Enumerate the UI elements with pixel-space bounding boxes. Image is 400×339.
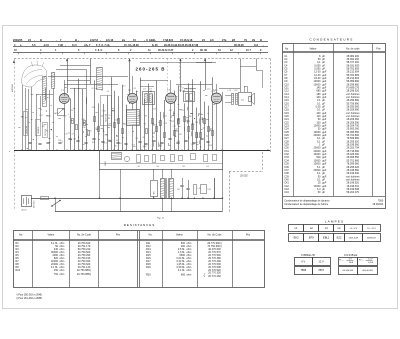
svg-text:2.8/7.8: 2.8/7.8 [90,38,98,42]
condensateurs header double rule [283,51,386,53]
svg-text:R8: R8 [136,138,138,140]
svg-text:6.8: 6.8 [188,121,190,123]
svg-text:28.906.540: 28.906.540 [26,126,28,134]
power unit inner rail [100,163,223,165]
svg-text:B: B [260,38,262,42]
capacitors C-cluster [28,139,209,145]
svg-text:C12: C12 [171,121,174,123]
loudspeaker housing [239,93,252,106]
svg-text:µF: µF [322,191,325,194]
boxed code label left 2 [36,120,41,136]
svg-text:LAMPES: LAMPES [325,220,344,224]
fusible cells row 2 [339,267,378,275]
svg-text:R22: R22 [154,125,157,127]
svg-text:11.5: 11.5 [72,44,77,47]
loudspeaker cone [249,97,252,102]
svg-text:C23: C23 [39,115,42,117]
HT feed wire x67 [67,59,69,94]
svg-text:C1: C1 [108,115,110,117]
svg-text:29.30.31.32.33.34.35.36.37.38: 29.30.31.32.33.34.35.36.37.38 [164,44,199,47]
svg-text:R20: R20 [146,273,151,276]
svg-text:27a: 27a [222,38,227,42]
svg-text:58.204.370: 58.204.370 [347,191,360,194]
svg-text:C8: C8 [142,137,144,139]
vibrator unit [151,181,158,197]
svg-text:R23: R23 [159,146,162,148]
svg-text:28.122.60: 28.122.60 [45,129,47,136]
svg-text:L.13: L.13 [133,88,136,90]
wire T1 leads [64,80,66,94]
svg-text:C39: C39 [169,110,172,112]
wire antenna leads [22,85,24,150]
feed wire x130 with arrow [129,59,131,104]
svg-text:08.140.560: 08.140.560 [343,270,354,272]
svg-text:R20: R20 [92,142,95,144]
svg-text:R2: R2 [144,123,146,125]
svg-text:C40: C40 [83,127,86,129]
power unit choke [112,153,122,160]
svg-text:R10: R10 [16,269,21,272]
svg-text:7. 8. 9.: 7. 8. 9. [95,49,103,52]
antenna coil L2 [52,73,55,89]
svg-text:08.140.562: 08.140.562 [362,270,373,272]
svg-text:L5—12 V: L5—12 V [367,228,376,230]
svg-text:25: 25 [152,137,154,139]
fuse F1 [41,197,49,200]
switch-contact table ticks [35,40,264,47]
switch S1 [52,201,60,207]
svg-text:6,5 A: 6,5 A [368,261,373,264]
schematic dashed boundary top [14,58,270,60]
svg-text:7867: 7867 [318,268,324,272]
vibreur cells [295,258,331,275]
svg-text:12 V: 12 V [318,259,324,263]
svg-text:C22: C22 [70,110,73,112]
svg-text:R7: R7 [203,128,205,130]
svg-text:No.: No. [19,234,23,237]
svg-text:²) Pour 261-263 et 265B.: ²) Pour 261-263 et 265B. [16,297,43,300]
svg-text:10 A: 10 A [349,261,354,264]
svg-text:L.10: L.10 [207,89,210,91]
wire speaker feeds [240,59,242,93]
supply junction dots [54,198,223,199]
tube T3 [166,93,177,104]
resistances table frame [14,231,265,288]
svg-text:V. GEEL: V. GEEL [146,38,156,42]
svg-text:L.13: L.13 [179,90,182,92]
svg-text:EZ2: EZ2 [337,235,342,239]
svg-text:6 .7. 8. 7.12: 6 .7. 8. 7.12 [96,44,110,47]
svg-text:C11: C11 [175,128,178,130]
svg-text:L.3: L.3 [179,86,181,88]
svg-text:AA. 7: AA. 7 [84,44,91,47]
svg-text:Prix: Prix [246,234,251,237]
svg-text:C28: C28 [107,124,110,126]
svg-text:9.6.16: 9.6.16 [106,38,114,42]
wire verticals field [71,77,223,150]
wire input verticals [36,94,38,150]
svg-text:C14: C14 [132,145,135,147]
svg-text:FUSIBLE: FUSIBLE [344,253,357,257]
svg-text:C2: C2 [69,117,71,119]
svg-text:C37: C37 [179,134,182,136]
boxed code label left 1 [24,112,28,136]
svg-text:39.40.45: 39.40.45 [234,44,244,47]
resistances rows right [146,242,222,278]
svg-text:C45: C45 [182,166,185,168]
svg-text:C16: C16 [63,115,66,117]
svg-text:L.7: L.7 [68,114,70,116]
svg-text:0480S-09: 0480S-09 [367,237,377,239]
battery [22,196,32,207]
svg-text:R1: R1 [170,117,172,119]
svg-text:L.17: L.17 [104,142,107,144]
svg-text:L.15: L.15 [228,90,231,92]
tube T1 [59,94,69,104]
svg-text:C27: C27 [176,131,179,133]
svg-text:C3: C3 [87,134,89,136]
IF transformer can 1 [143,92,155,105]
wire T2 leads [132,76,134,93]
svg-text:150: 150 [189,116,192,118]
filter capacitor C44 [201,185,207,194]
svg-text:S2: S2 [138,166,140,168]
svg-text:L.13: L.13 [122,86,125,88]
svg-text:26.002: 26.002 [239,174,248,177]
HT feed wire x180 [180,59,182,93]
svg-text:L.14: L.14 [163,116,166,118]
svg-text:L.11: L.11 [184,89,187,91]
svg-text:0613-N-39: 0613-N-39 [349,237,359,239]
svg-text:4.6: 4.6 [210,38,214,42]
svg-text:ACCU: ACCU [22,209,28,212]
svg-text:ohm: ohm [60,273,65,276]
HT feed wire x205 [205,59,207,91]
svg-text:No.: No. [149,234,153,237]
svg-text:C17: C17 [123,124,126,126]
oscillator coil bar [97,68,103,90]
svg-text:0,1 M-: 0,1 M- [178,269,185,272]
section divider dashed x167 [167,59,169,93]
svg-text:R6: R6 [106,134,108,136]
svg-text:6 V: 6 V [301,259,305,263]
svg-text:R10: R10 [58,140,61,142]
svg-text:RESISTANCES: RESISTANCES [124,223,155,227]
variable capacitor C6 [58,109,65,116]
IF transformer can 2 [184,92,195,102]
svg-text:L.40: L.40 [156,166,159,168]
svg-text:4.7: 4.7 [72,134,74,136]
svg-text:ohm: ohm [187,269,192,272]
svg-text:No. de code: No. de code [346,47,360,50]
svg-text:EBL1: EBL1 [323,235,330,239]
fusible cells row 1 [339,258,378,266]
svg-text:L.3: L.3 [215,90,217,92]
antenna arrow [13,60,15,63]
bus junction dots [21,150,268,151]
svg-text:20.750.880¹): 20.750.880¹) [77,269,91,272]
svg-text:VIBREUR: VIBREUR [301,253,315,257]
svg-text:R9: R9 [108,118,110,120]
svg-text:Valeur: Valeur [309,47,316,50]
wire transformer links [162,169,164,178]
svg-text:EK2: EK2 [294,235,299,239]
svg-text:700: 700 [54,273,59,276]
svg-text:260-265 B: 260-265 B [136,66,166,71]
svg-text:20.770.260: 20.770.260 [208,275,221,278]
section divider dashed x179 [179,59,181,81]
svg-text:C24: C24 [118,143,121,145]
svg-text:L.2: L.2 [153,131,155,133]
svg-text:No.: No. [285,47,289,50]
HT feed wire x90 [90,59,92,85]
antenna coil L1 [43,77,47,107]
svg-text:Prix: Prix [116,234,121,237]
lampes row 2 cells [289,234,381,242]
buffer capacitor C42 [186,188,189,190]
supply wire verticals [55,198,57,211]
svg-text:28.900.10: 28.900.10 [38,127,40,134]
svg-text:F1 —: F1 — [339,260,344,262]
svg-text:ohm: ohm [60,269,65,272]
wire top interconnects [48,76,128,78]
svg-text:C29: C29 [153,108,156,110]
svg-text:C20: C20 [177,141,180,143]
svg-text:L.8: L.8 [143,89,146,91]
svg-text:C30: C30 [191,144,194,146]
chassis ground bus [14,150,270,152]
svg-text:Condensateur de déparasitage d: Condensateur de déparasitage de bobine [284,203,329,206]
svg-text:150: 150 [54,269,59,272]
svg-text:7.98: 7.98 [58,44,63,47]
svg-text:Valeur: Valeur [47,234,54,237]
power unit small parts [137,155,141,163]
svg-text:No. de Code: No. de Code [207,234,222,237]
svg-text:20.750.886²): 20.750.886²) [77,273,91,276]
svg-text:ANTENNE: ANTENNE [11,83,14,92]
supply wire y211.5 [55,211,223,213]
svg-text:C35: C35 [73,138,76,140]
svg-text:C4: C4 [143,146,145,148]
resistances mid double rule [137,231,139,288]
svg-text:4.5: 4.5 [91,88,93,90]
svg-text:15.16.6.18: 15.16.6.18 [180,38,193,42]
switch-contact table rules [13,41,268,43]
svg-text:R5: R5 [83,123,85,125]
svg-text:9.10: 9.10 [44,44,49,47]
switch-contact table bottom ticks [19,52,261,54]
schematic dashed boundary right step [262,152,264,172]
svg-text:L.13: L.13 [164,123,167,125]
svg-text:8. 28: 8. 28 [152,44,158,47]
svg-text:C44: C44 [208,189,211,191]
wire T4 leads [216,84,218,93]
svg-text:C9: C9 [150,91,152,93]
power unit box [100,151,223,170]
supply wire y198 [31,198,223,200]
svg-text:C18: C18 [195,122,198,124]
svg-text:28.062/03: 28.062/03 [373,203,384,206]
output transformer L15 L16 [232,94,234,105]
buffer capacitor C41 [180,185,183,187]
resistances header double rule [13,239,264,241]
svg-text:¹) Pour 260-263 et 264B.: ¹) Pour 260-263 et 264B. [16,293,43,296]
condensateurs table frame [283,44,386,209]
svg-text:C44: C44 [284,191,289,194]
vibrator transformer secondary [170,179,174,199]
svg-text:7.58.624: 7.58.624 [163,38,174,42]
svg-text:R19: R19 [146,266,151,269]
svg-text:38. 39: 38. 39 [200,49,208,52]
svg-text:L.12: L.12 [190,89,194,91]
HT feed wire x256 [256,59,258,71]
svg-text:L.16: L.16 [234,90,237,92]
svg-text:R19: R19 [114,146,117,148]
svg-text:R15: R15 [103,111,106,113]
svg-text:425: 425 [241,100,244,102]
svg-text:4.5: 4.5 [106,91,108,93]
svg-text:C26: C26 [100,116,103,118]
svg-text:C33: C33 [92,107,95,109]
svg-text:C5: C5 [98,134,100,136]
svg-text:112: 112 [254,44,259,47]
svg-text:L.10: L.10 [88,130,91,132]
svg-text:7866: 7866 [154,191,156,195]
svg-text:C32: C32 [115,119,118,121]
svg-text:10 7: 10 7 [246,49,251,52]
schematic dashed boundary right [270,59,272,153]
resistors R-cluster [72,117,214,138]
svg-text:260/265: 260/265 [13,38,23,42]
svg-text:15 .16 .18.68: 15 .16 .18.68 [124,44,139,47]
svg-text:R18: R18 [112,110,115,112]
svg-text:Fig. 13: Fig. 13 [156,216,165,219]
svg-text:12 V: 12 V [368,259,373,261]
lampes row 1 cells [289,225,381,232]
svg-text:R17: R17 [42,126,45,128]
tube T2 [127,93,137,103]
svg-text:665: 665 [181,273,186,276]
RF choke L44 [194,185,197,195]
svg-text:R4: R4 [145,116,147,118]
svg-text:R16: R16 [209,145,212,147]
wire stubs noise [18,88,215,150]
antenna pictorial car sketch [22,65,47,87]
svg-text:EF9: EF9 [309,235,314,239]
svg-text:No. de Code: No. de Code [77,234,92,237]
svg-text:C41: C41 [177,189,180,191]
svg-text:C10: C10 [55,113,58,115]
tube T4 [211,93,222,104]
schematic dashed boundary left [14,59,16,211]
svg-text:7866: 7866 [300,268,306,272]
wire T3 leads [170,80,172,93]
svg-text:0.1: 0.1 [68,133,70,135]
boxed code label center [101,96,112,126]
svg-text:30.32.3c 8.37: 30.32.3c 8.37 [158,49,174,52]
power unit fuse [124,156,129,161]
resistances rows left [16,242,92,276]
boxed code label left 3 [43,123,48,138]
svg-text:Valeur: Valeur [176,234,183,237]
shaded IF coil under T2 [127,110,140,126]
svg-text:L5—6 V: L5—6 V [350,228,358,230]
condensateurs rows [284,55,360,194]
svg-text:5.6: 5.6 [32,44,36,47]
svg-text:L.6: L.6 [196,142,198,144]
svg-text:Prix: Prix [376,47,381,50]
transformer core [165,178,167,198]
condensateurs column rules [293,44,295,197]
svg-text:L.41: L.41 [206,166,209,168]
svg-text:ohm: ohm [187,273,192,276]
svg-text:R21: R21 [191,123,194,125]
condensateurs footer rule [283,196,386,198]
svg-text:F2 —: F2 — [359,260,364,262]
svg-text:Condensateur de déparasitage d: Condensateur de déparasitage de dynamo [284,199,330,202]
component value labels [39,86,217,149]
svg-text:C31: C31 [181,110,184,112]
svg-text:C38: C38 [81,119,84,121]
vibrator transformer primary [161,179,165,199]
svg-text:C25: C25 [46,116,49,118]
svg-text:R13: R13 [107,140,110,142]
resistances column rules [32,231,34,288]
svg-text:C9: C9 [101,90,103,92]
svg-text:7560: 7560 [378,199,384,202]
svg-text:CONDENSATEURS: CONDENSATEURS [309,38,353,42]
svg-text:B: B [75,38,77,42]
svg-text:B: B [40,38,42,42]
svg-text:28.062: 28.062 [105,161,107,166]
wire output transformer leads [225,95,231,97]
